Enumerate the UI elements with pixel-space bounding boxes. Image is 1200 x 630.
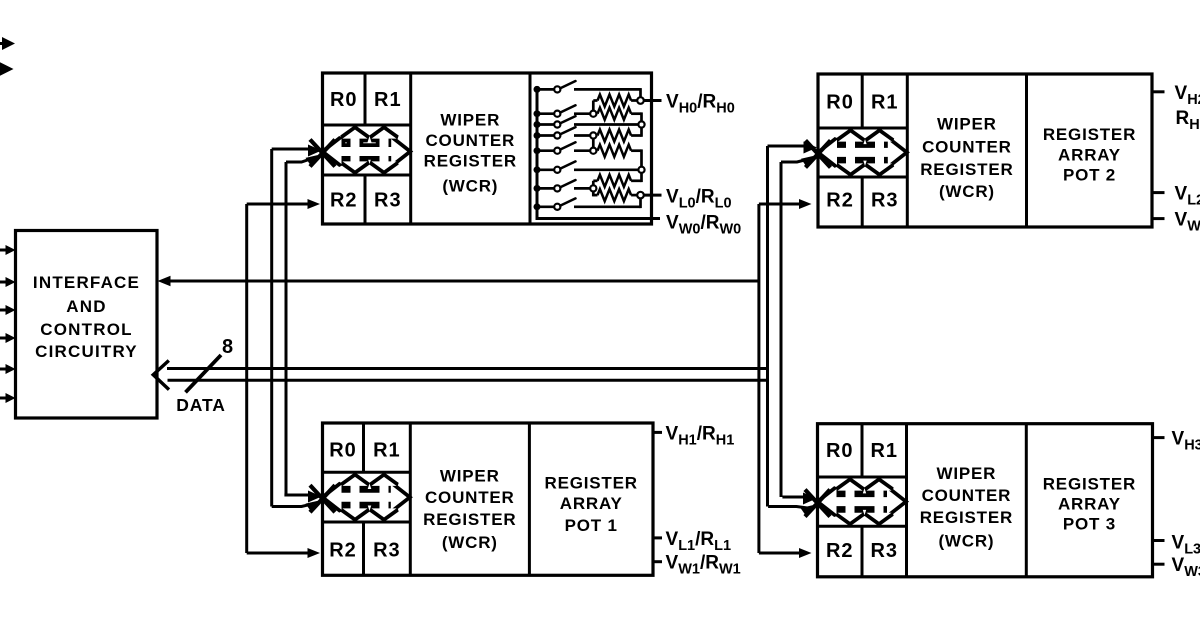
- svg-text:8: 8: [222, 336, 233, 358]
- wire: tap 3 line: [574, 134, 590, 137]
- wire: bus branch to WCR (lower): [781, 159, 809, 162]
- wire: VH3 stub: [1153, 436, 1165, 439]
- svg-text:POT 2: POT 2: [1063, 166, 1116, 185]
- svg-text:COUNTER: COUNTER: [425, 488, 515, 507]
- wire: vertical branch V6 (right): [780, 162, 783, 497]
- wire: DATA bus lower line: [168, 379, 768, 382]
- svg-text:WIPER: WIPER: [440, 111, 500, 130]
- svg-text:COUNTER: COUNTER: [922, 486, 1012, 505]
- svg-text:POT 3: POT 3: [1063, 514, 1116, 533]
- wire: tap 7 line to VL0 node: [574, 205, 641, 208]
- wire: vertical branch V3 (left): [285, 162, 288, 495]
- node tap 1: [590, 111, 596, 117]
- svg-text:REGISTER: REGISTER: [423, 510, 516, 529]
- switch SW4 (pot 0 tap 4): [534, 147, 541, 154]
- wire: vertical branch V5 (right): [766, 146, 769, 507]
- X junction at WCR input (WCR1): [310, 485, 335, 512]
- wire: tap 1 line: [574, 112, 590, 115]
- svg-text:R1: R1: [373, 440, 401, 462]
- input arrow (cropped signal, top-left #1): [0, 42, 4, 45]
- wire: bus branch to WCR (upper): [768, 145, 806, 148]
- svg-text:(WCR): (WCR): [938, 531, 994, 550]
- svg-text:R2: R2: [826, 190, 854, 212]
- resistor R_a (pot 0): [593, 99, 597, 102]
- wire: bus branch to WCR (lower): [768, 507, 808, 509]
- data-transfer arrows symbol (WCR0): [326, 130, 408, 171]
- wire: R2 register input (WCR0): [247, 203, 308, 206]
- wire: r_e/r_f left junction: [592, 181, 595, 186]
- wire: bus branch to WCR (lower): [286, 158, 314, 162]
- wire: r_c right elbow up: [640, 128, 643, 137]
- svg-text:R1: R1: [870, 440, 898, 462]
- svg-text:R2: R2: [330, 190, 358, 212]
- switch SW6 (pot 0 tap 6): [534, 185, 541, 192]
- wire: tap 4 line: [574, 149, 590, 152]
- wire: r_b right elbow down: [640, 112, 643, 121]
- svg-text:R1: R1: [871, 92, 899, 114]
- block WCR1: outline: [323, 423, 654, 575]
- node tap 6: [590, 185, 596, 191]
- block WCR2: internal dividers: [906, 74, 909, 227]
- wire: VH1 stub: [653, 431, 662, 434]
- wire: bus branch to WCR (lower): [272, 504, 314, 507]
- data-transfer arrows symbol (WCR3): [821, 482, 904, 522]
- svg-text:ARRAY: ARRAY: [560, 494, 623, 513]
- data-transfer arrows symbol (WCR1): [326, 477, 407, 518]
- svg-text:COUNTER: COUNTER: [922, 137, 1012, 156]
- wire: R2 register input (WCR2): [759, 203, 800, 206]
- input arrow into interface #2: [0, 281, 6, 284]
- switch SW5 (pot 0 tap 5): [534, 166, 541, 173]
- wire: VL0 lead: [644, 194, 662, 197]
- wire: vertical branch V2 (left): [270, 149, 273, 507]
- svg-text:AND: AND: [66, 297, 106, 316]
- input arrow into interface #4: [0, 337, 6, 340]
- node tap 3: [590, 132, 596, 138]
- wire: VW2 stub: [1152, 217, 1165, 220]
- resistor R_b (pot 0): [598, 108, 632, 120]
- svg-text:REGISTER: REGISTER: [545, 474, 638, 493]
- DATA bus open arrowhead: [153, 361, 169, 390]
- switch SW7 (pot 0 tap 7): [534, 203, 541, 210]
- svg-text:REGISTER: REGISTER: [920, 508, 1013, 527]
- block WCR0: internal dividers: [409, 73, 412, 224]
- wire: r_e right elbow up: [640, 173, 643, 182]
- X junction at WCR input (WCR3): [805, 490, 830, 517]
- svg-text:ARRAY: ARRAY: [1058, 145, 1121, 164]
- data-transfer arrows symbol (WCR2): [821, 133, 904, 173]
- block WCR0: outline: [323, 73, 652, 224]
- wire: r_c/r_d left junction: [592, 139, 595, 148]
- resistor R_e (pot 0): [593, 179, 597, 182]
- wire: VL3 stub: [1153, 539, 1165, 542]
- resistor R_c (pot 0): [596, 134, 597, 137]
- wire: vertical branch V1 (R2 lines, left): [245, 204, 248, 553]
- switch SW2 (pot 0 tap 2): [534, 121, 541, 128]
- svg-text:(WCR): (WCR): [939, 182, 995, 201]
- input arrow into interface #6: [0, 397, 6, 400]
- wire: bus branch to WCR (upper): [782, 496, 804, 499]
- node VL0 terminal: [637, 192, 644, 199]
- svg-text:R0: R0: [329, 440, 357, 462]
- svg-text:REGISTER: REGISTER: [1043, 474, 1136, 493]
- node tap 5: [638, 167, 644, 173]
- wire: bus branch to WCR (upper): [284, 494, 309, 497]
- wire: r_a/r_b left junction: [592, 101, 595, 111]
- wire: VH0 lead: [644, 99, 662, 102]
- block WCR3: internal dividers: [905, 424, 908, 577]
- svg-text:R3: R3: [374, 190, 402, 212]
- X junction at WCR input (WCR2): [806, 140, 831, 167]
- wire: tap 2 line: [574, 123, 638, 126]
- svg-text:REGISTER: REGISTER: [920, 160, 1013, 179]
- wire: feedback bus into interface (arrow left): [168, 280, 759, 283]
- svg-text:CIRCUITRY: CIRCUITRY: [35, 342, 138, 361]
- node tap 4: [590, 148, 596, 154]
- svg-text:COUNTER: COUNTER: [425, 131, 515, 150]
- svg-text:CONTROL: CONTROL: [40, 320, 132, 339]
- svg-text:WIPER: WIPER: [937, 464, 997, 483]
- X junction at WCR input (WCR0): [310, 140, 335, 167]
- svg-text:REGISTER: REGISTER: [1043, 125, 1136, 144]
- wire: tap 0 to VH0 node: [574, 88, 641, 91]
- svg-text:R2: R2: [826, 540, 854, 562]
- svg-text:R0: R0: [826, 92, 854, 114]
- wire: bus branch to WCR (upper): [272, 148, 310, 151]
- node VH0 terminal: [637, 97, 644, 104]
- wire: r_d right elbow down: [640, 149, 643, 166]
- wire: VW3 stub: [1153, 563, 1165, 566]
- wire: tap 6 line: [574, 187, 590, 190]
- wire: vertical branch V4 (R2 lines, right): [757, 204, 760, 553]
- switch SW1 (pot 0 tap 1): [534, 110, 541, 117]
- svg-text:R3: R3: [373, 540, 401, 562]
- svg-text:POT 1: POT 1: [565, 516, 618, 535]
- block U1: INTERFACE AND CONTROL CIRCUITRY: [16, 231, 158, 419]
- wire: R2 register input (WCR3): [759, 552, 800, 555]
- resistor R_f (pot 0): [593, 194, 597, 197]
- input arrow into interface #5: [0, 368, 6, 371]
- svg-text:R2: R2: [329, 540, 357, 562]
- block WCR1: internal dividers: [409, 423, 412, 575]
- block WCR3: outline: [818, 424, 1153, 577]
- input arrow (cropped signal, top-left #2): [0, 68, 2, 71]
- svg-text:R0: R0: [826, 440, 854, 462]
- input arrow into interface #1: [0, 249, 6, 252]
- svg-text:DATA: DATA: [176, 395, 226, 415]
- svg-text:R0: R0: [330, 89, 358, 111]
- wire: R2 register input (WCR1): [247, 552, 308, 555]
- wire: VH2 stub: [1152, 90, 1165, 93]
- svg-text:INTERFACE: INTERFACE: [33, 273, 140, 292]
- svg-text:REGISTER: REGISTER: [424, 152, 517, 171]
- wire: VL2 stub: [1152, 191, 1165, 194]
- svg-text:(WCR): (WCR): [442, 176, 498, 195]
- svg-text:(WCR): (WCR): [442, 533, 498, 552]
- svg-text:WIPER: WIPER: [937, 115, 997, 134]
- wire: VW1 stub: [653, 560, 662, 563]
- wire: DATA bus upper line: [167, 367, 768, 370]
- resistor R_d (pot 0): [596, 149, 597, 152]
- input arrow into interface #3: [0, 309, 6, 312]
- bus width slash: [186, 355, 222, 392]
- node tap 2: [638, 121, 644, 127]
- svg-text:WIPER: WIPER: [440, 466, 500, 485]
- block WCR2: outline: [818, 74, 1152, 227]
- switch SW0 (pot 0 tap 0): [534, 86, 541, 93]
- svg-text:R3: R3: [870, 540, 898, 562]
- wire: VL1 stub: [653, 536, 662, 539]
- wiper bus of pot 0 array: [537, 86, 660, 219]
- wire: tap 5 line: [574, 168, 638, 171]
- switch SW3 (pot 0 tap 3): [534, 132, 541, 139]
- svg-text:R1: R1: [374, 89, 402, 111]
- svg-text:ARRAY: ARRAY: [1058, 494, 1121, 513]
- svg-text:R3: R3: [871, 190, 899, 212]
